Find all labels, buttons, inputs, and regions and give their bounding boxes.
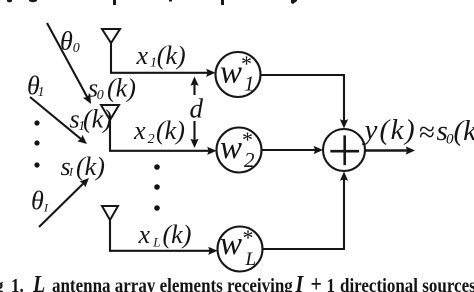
svg-text:I: I — [43, 201, 49, 215]
svg-text:θ: θ — [31, 186, 44, 215]
svg-text:+: + — [311, 270, 322, 292]
svg-text:I: I — [68, 165, 74, 179]
svg-text:1: 1 — [38, 85, 45, 100]
svg-text:1: 1 — [244, 72, 255, 96]
svg-text:w: w — [220, 55, 242, 91]
svg-text:(k): (k) — [83, 105, 112, 134]
svg-text:(k): (k) — [380, 114, 417, 146]
svg-text:x: x — [133, 116, 146, 145]
svg-text:(k): (k) — [157, 41, 186, 70]
svg-text:(k): (k) — [107, 74, 136, 103]
svg-text:1.: 1. — [11, 275, 24, 292]
svg-text:(k): (k) — [163, 220, 192, 249]
svg-text:d: d — [190, 94, 204, 124]
svg-text:(k): (k) — [454, 115, 474, 147]
svg-text:antenna array elements receivi: antenna array elements receiving — [52, 275, 293, 292]
svg-text:(k): (k) — [156, 116, 185, 145]
svg-text:(k): (k) — [76, 152, 105, 181]
svg-text:x: x — [138, 220, 151, 249]
svg-text:L: L — [32, 270, 45, 292]
svg-text:θ: θ — [60, 27, 73, 56]
svg-text:directional sources: directional sources — [340, 275, 474, 292]
svg-text:g: g — [0, 275, 4, 292]
svg-text:L: L — [152, 235, 160, 250]
svg-text:x: x — [136, 41, 149, 70]
svg-text:w: w — [220, 226, 242, 262]
svg-text:2: 2 — [244, 148, 255, 172]
svg-text:*: * — [243, 225, 254, 250]
svg-text:0: 0 — [97, 88, 104, 103]
svg-text:L: L — [245, 249, 257, 270]
svg-text:2: 2 — [148, 132, 155, 147]
svg-text:y: y — [362, 114, 378, 146]
svg-text:≈: ≈ — [419, 117, 435, 149]
svg-text:I: I — [295, 270, 305, 292]
svg-text:w: w — [220, 130, 242, 166]
svg-text:1: 1 — [327, 275, 336, 292]
svg-text:0: 0 — [73, 41, 80, 56]
